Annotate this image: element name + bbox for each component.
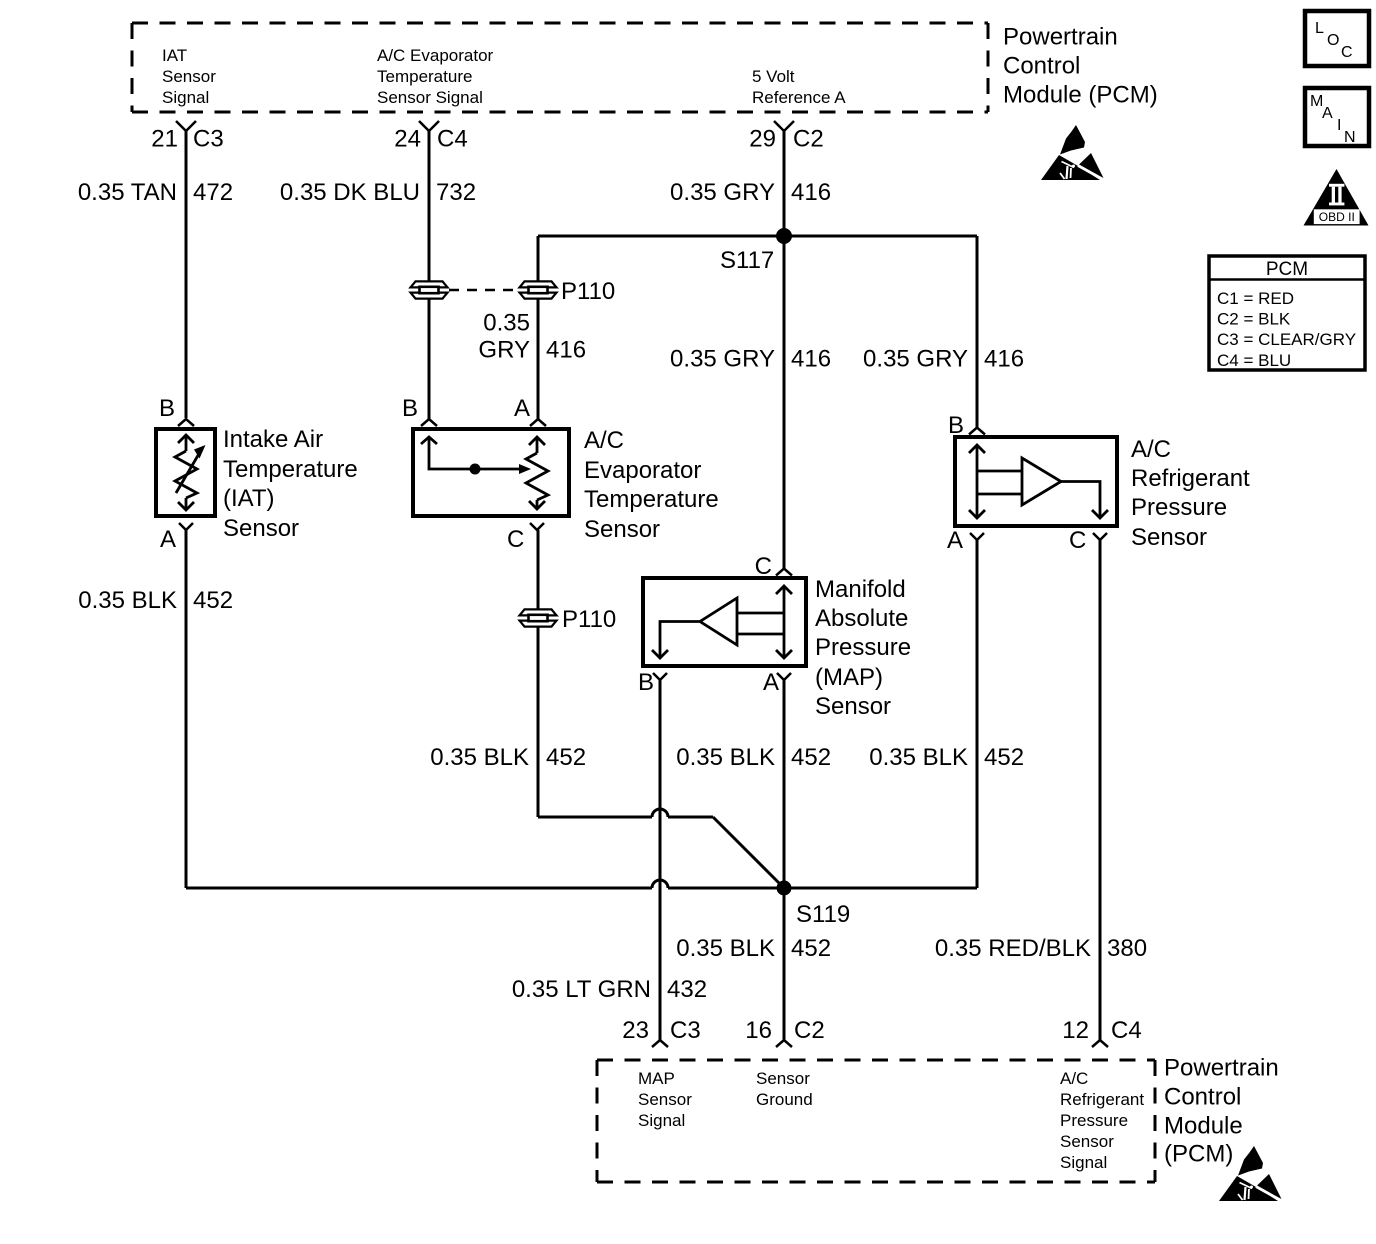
- svg-text:0.35 GRY: 0.35 GRY: [670, 179, 775, 206]
- svg-text:C3: C3: [670, 1017, 701, 1044]
- svg-text:B: B: [159, 395, 175, 422]
- svg-text:A/C: A/C: [1060, 1069, 1088, 1088]
- svg-text:A/C Evaporator: A/C Evaporator: [377, 46, 494, 65]
- pin C exit chevron refrig: [1093, 533, 1107, 540]
- wire refrig A down: [976, 540, 979, 888]
- pin C exit chevron evap: [530, 523, 544, 530]
- label A/C Evaporator Temperature Sensor: [584, 427, 719, 543]
- svg-text:452: 452: [193, 587, 233, 614]
- svg-text:A: A: [763, 669, 779, 696]
- svg-text:Pressure: Pressure: [815, 634, 911, 661]
- evap thermistor: [526, 437, 548, 509]
- svg-text:Powertrain: Powertrain: [1164, 1055, 1279, 1082]
- svg-text:I: I: [1337, 117, 1341, 134]
- MAP sensor box: [643, 578, 806, 666]
- MAIN box: [1305, 88, 1369, 146]
- svg-text:Temperature: Temperature: [377, 67, 472, 86]
- wire 29C2 to S117: [783, 131, 786, 236]
- wire MAP A down through S119 to pin 16: [783, 680, 786, 1040]
- svg-text:C2: C2: [793, 126, 824, 153]
- svg-text:A/C: A/C: [584, 427, 624, 454]
- pin 21 C3: [151, 121, 223, 153]
- svg-text:Sensor: Sensor: [1131, 524, 1207, 551]
- label A/C Refrigerant Pressure Sensor Signal: [1060, 1069, 1144, 1172]
- svg-text:Refrigerant: Refrigerant: [1060, 1090, 1144, 1109]
- label 0.35 BLK 452 (MAP A): [676, 744, 831, 771]
- label 5 Volt Reference A: [752, 67, 846, 107]
- wire refrig C down: [1099, 540, 1102, 1040]
- svg-text:GRY: GRY: [478, 337, 530, 364]
- svg-text:0.35 RED/BLK: 0.35 RED/BLK: [935, 935, 1091, 962]
- wire P110 to evap B: [428, 299, 431, 420]
- svg-text:Sensor: Sensor: [638, 1090, 692, 1109]
- wire 21C3 to IAT B: [185, 131, 188, 418]
- svg-text:0.35 BLK: 0.35 BLK: [676, 744, 775, 771]
- wire P110 down and jog to S119: [538, 627, 784, 889]
- svg-text:S119: S119: [796, 901, 850, 928]
- pin B entry chevron evap: [421, 419, 437, 426]
- pin A entry chevron evap: [530, 419, 546, 426]
- pin A exit chevron IAT: [179, 523, 193, 530]
- P110 dashed link: [449, 289, 519, 292]
- svg-text:0.35 TAN: 0.35 TAN: [78, 179, 177, 206]
- wire S117 left branch down: [537, 236, 540, 282]
- ground bus wire S119: [186, 880, 977, 888]
- label 0.35 RED/BLK 380: [935, 935, 1147, 962]
- svg-text:C1 = RED: C1 = RED: [1217, 289, 1294, 308]
- connector P110 left half: [411, 281, 448, 298]
- svg-text:L: L: [1315, 20, 1324, 37]
- svg-text:416: 416: [791, 346, 831, 373]
- svg-text:C3: C3: [193, 126, 224, 153]
- svg-text:MAP: MAP: [638, 1069, 675, 1088]
- svg-text:C: C: [1069, 527, 1086, 554]
- ESD symbol top: [1041, 125, 1104, 180]
- svg-text:B: B: [402, 395, 418, 422]
- label Powertrain Control Module (PCM) bottom right: [1164, 1055, 1279, 1168]
- label 0.35 BLK 452 (refrig A): [869, 744, 1024, 771]
- svg-text:Sensor: Sensor: [162, 67, 216, 86]
- wire MAP B down to pin 23: [659, 680, 662, 1040]
- svg-text:A: A: [160, 526, 176, 553]
- pin 16 C2: [745, 1017, 824, 1047]
- PCM connector legend box: [1209, 256, 1365, 370]
- wire S117 right branch to refrig B: [976, 236, 979, 428]
- svg-text:Temperature: Temperature: [584, 486, 719, 513]
- label A/C Evaporator Temperature Sensor Signal: [377, 46, 494, 107]
- svg-text:B: B: [638, 669, 654, 696]
- svg-text:Module: Module: [1164, 1113, 1243, 1140]
- pin A exit chevron refrig: [970, 533, 984, 540]
- svg-text:Sensor: Sensor: [584, 516, 660, 543]
- IAT sensor box: [156, 429, 215, 516]
- svg-text:C4: C4: [437, 126, 468, 153]
- svg-text:21: 21: [151, 126, 178, 153]
- svg-text:Control: Control: [1003, 53, 1080, 80]
- LOC box: [1305, 11, 1369, 66]
- label Intake Air Temperature (IAT) Sensor: [223, 426, 358, 542]
- svg-text:416: 416: [791, 179, 831, 206]
- svg-text:0.35 DK BLU: 0.35 DK BLU: [280, 179, 420, 206]
- svg-text:A: A: [514, 395, 530, 422]
- svg-text:29: 29: [749, 126, 776, 153]
- label 0.35 TAN 472: [78, 179, 233, 206]
- svg-text:C2 = BLK: C2 = BLK: [1217, 310, 1291, 329]
- svg-text:Manifold: Manifold: [815, 576, 906, 603]
- wire P110 to evap A: [537, 299, 540, 420]
- svg-text:Pressure: Pressure: [1131, 494, 1227, 521]
- evap inner wiper arm: [421, 437, 520, 469]
- svg-text:Reference A: Reference A: [752, 88, 846, 107]
- pin 24 C4: [394, 121, 467, 153]
- svg-text:380: 380: [1107, 935, 1147, 962]
- svg-text:IAT: IAT: [162, 46, 187, 65]
- svg-text:Powertrain: Powertrain: [1003, 24, 1118, 51]
- pin 29 C2: [749, 121, 823, 153]
- node S119: [777, 881, 792, 896]
- svg-text:Ground: Ground: [756, 1090, 813, 1109]
- svg-text:C: C: [1341, 44, 1353, 61]
- label Powertrain Control Module (PCM) top right: [1003, 24, 1158, 109]
- svg-text:452: 452: [984, 744, 1024, 771]
- label Sensor Ground: [756, 1069, 813, 1109]
- svg-text:Signal: Signal: [638, 1111, 685, 1130]
- svg-text:Pressure: Pressure: [1060, 1111, 1128, 1130]
- MAP op-amp symbol: [652, 586, 792, 658]
- svg-text:C: C: [507, 526, 524, 553]
- svg-text:(PCM): (PCM): [1164, 1141, 1233, 1168]
- refrig op-amp symbol: [969, 445, 1108, 518]
- svg-text:S117: S117: [720, 247, 774, 274]
- svg-text:0.35: 0.35: [483, 310, 530, 337]
- IAT thermistor symbol: [175, 435, 200, 510]
- OBD II symbol: [1304, 169, 1369, 226]
- svg-text:0.35 BLK: 0.35 BLK: [430, 744, 529, 771]
- label A/C Refrigerant Pressure Sensor: [1131, 436, 1250, 551]
- svg-text:416: 416: [546, 337, 586, 364]
- svg-text:C2: C2: [794, 1017, 825, 1044]
- svg-text:472: 472: [193, 179, 233, 206]
- wire 24C4 to P110: [428, 131, 431, 282]
- svg-text:12: 12: [1062, 1017, 1089, 1044]
- svg-text:PCM: PCM: [1266, 259, 1308, 280]
- connector P110 lower: [520, 609, 557, 626]
- svg-text:Module (PCM): Module (PCM): [1003, 82, 1158, 109]
- svg-text:5 Volt: 5 Volt: [752, 67, 795, 86]
- wire evap C down to P110: [537, 530, 540, 610]
- svg-text:Temperature: Temperature: [223, 456, 358, 483]
- svg-text:(MAP): (MAP): [815, 664, 883, 691]
- svg-text:OBD II: OBD II: [1319, 210, 1355, 224]
- svg-text:452: 452: [791, 935, 831, 962]
- svg-text:C4: C4: [1111, 1017, 1142, 1044]
- svg-text:N: N: [1344, 129, 1356, 146]
- pin 23 C3: [622, 1017, 700, 1047]
- label 0.35 LT GRN 432: [512, 976, 707, 1003]
- pin 12 C4: [1062, 1017, 1141, 1047]
- svg-text:0.35 GRY: 0.35 GRY: [670, 346, 775, 373]
- svg-text:P110: P110: [562, 606, 616, 633]
- label 0.35 GRY 416 right: [863, 346, 1024, 373]
- svg-text:A/C: A/C: [1131, 436, 1171, 463]
- svg-text:Sensor: Sensor: [223, 515, 299, 542]
- wire IAT A down: [185, 530, 188, 888]
- label 0.35 GRY 416 left two-line: [478, 310, 586, 364]
- PCM top dashed box: [132, 23, 988, 112]
- pin B entry chevron refrig: [969, 428, 985, 435]
- pin B entry chevron IAT: [178, 419, 194, 426]
- svg-text:Signal: Signal: [162, 88, 209, 107]
- svg-text:C4 = BLU: C4 = BLU: [1217, 351, 1291, 370]
- label 0.35 GRY 416 top: [670, 179, 831, 206]
- svg-text:O: O: [1327, 32, 1339, 49]
- svg-text:452: 452: [791, 744, 831, 771]
- svg-text:Evaporator: Evaporator: [584, 457, 701, 484]
- pin C entry chevron MAP: [776, 569, 792, 576]
- svg-text:Sensor: Sensor: [756, 1069, 810, 1088]
- svg-text:0.35 LT GRN: 0.35 LT GRN: [512, 976, 651, 1003]
- svg-text:B: B: [948, 412, 964, 439]
- svg-text:24: 24: [394, 126, 421, 153]
- label 0.35 BLK 452 (below S119): [676, 935, 831, 962]
- svg-text:Sensor: Sensor: [815, 693, 891, 720]
- label 0.35 GRY 416 mid: [670, 346, 831, 373]
- svg-text:0.35 GRY: 0.35 GRY: [863, 346, 968, 373]
- svg-text:Signal: Signal: [1060, 1153, 1107, 1172]
- ESD symbol bottom: [1219, 1146, 1282, 1201]
- pin A exit chevron MAP: [777, 673, 791, 680]
- splice S117 wire: [538, 235, 977, 238]
- svg-text:16: 16: [745, 1017, 772, 1044]
- svg-text:0.35 BLK: 0.35 BLK: [78, 587, 177, 614]
- svg-text:23: 23: [622, 1017, 649, 1044]
- svg-text:452: 452: [546, 744, 586, 771]
- svg-text:A: A: [947, 527, 963, 554]
- label 0.35 BLK 452 left: [78, 587, 233, 614]
- label Manifold Absolute Pressure (MAP) Sensor: [815, 576, 911, 720]
- svg-text:C: C: [755, 553, 772, 580]
- svg-text:Sensor: Sensor: [1060, 1132, 1114, 1151]
- svg-text:Intake Air: Intake Air: [223, 426, 323, 453]
- svg-text:Refrigerant: Refrigerant: [1131, 465, 1250, 492]
- svg-text:432: 432: [667, 976, 707, 1003]
- A/C evaporator temperature sensor box: [413, 429, 569, 516]
- svg-text:416: 416: [984, 346, 1024, 373]
- svg-text:C3 = CLEAR/GRY: C3 = CLEAR/GRY: [1217, 330, 1356, 349]
- label MAP Sensor Signal: [638, 1069, 692, 1130]
- svg-text:P110: P110: [561, 278, 615, 305]
- svg-text:Sensor Signal: Sensor Signal: [377, 88, 483, 107]
- wire S117 to MAP C: [783, 236, 786, 569]
- pin B exit chevron MAP: [653, 673, 667, 680]
- svg-text:Control: Control: [1164, 1084, 1241, 1111]
- svg-text:A: A: [1322, 105, 1333, 122]
- label 0.35 DK BLU 732: [280, 179, 476, 206]
- svg-text:0.35 BLK: 0.35 BLK: [676, 935, 775, 962]
- svg-text:0.35 BLK: 0.35 BLK: [869, 744, 968, 771]
- connector P110 right half: [520, 281, 557, 298]
- svg-text:(IAT): (IAT): [223, 485, 275, 512]
- A/C refrigerant pressure sensor box: [955, 437, 1117, 526]
- PCM bottom dashed box: [597, 1060, 1155, 1182]
- label IAT Sensor Signal: [162, 46, 216, 107]
- label 0.35 BLK 452 (evap): [430, 744, 586, 771]
- node S117: [776, 228, 792, 244]
- svg-text:732: 732: [436, 179, 476, 206]
- svg-text:Absolute: Absolute: [815, 605, 908, 632]
